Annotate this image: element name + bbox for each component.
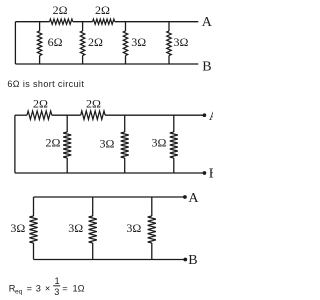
wire: bottom lead of R9 2-ohm: [66, 158, 68, 173]
wire: bottom lead of R12 3-ohm: [33, 243, 35, 260]
wire: circuit-2 bottom rail to node B: [15, 172, 205, 174]
wire: circuit-1 top rail left segment: [15, 21, 49, 23]
wire: top lead of R4 2-ohm: [82, 22, 84, 31]
wire: top lead of R6 3-ohm: [168, 22, 170, 31]
wire: bottom lead of R4 2-ohm: [82, 56, 84, 65]
wire: top lead of R10 3-ohm: [124, 115, 126, 132]
wire: circuit-3 top rail to node A: [34, 196, 185, 198]
svg-text:A: A: [202, 15, 213, 30]
resistor R3 6-ohm vertical (circuit 1): [37, 31, 41, 56]
wire: bottom lead of R11 3-ohm: [173, 158, 175, 173]
resistor R7 2-ohm horizontal (circuit 2): [27, 111, 52, 119]
svg-text:6Ω is short circuit: 6Ω is short circuit: [7, 79, 84, 89]
wire: top lead of R12 3-ohm: [33, 197, 35, 216]
wire: top lead of R3 6-ohm: [39, 22, 41, 31]
wire: circuit-2 left edge: [14, 115, 16, 173]
resistor R5 3-ohm vertical (circuit 1): [123, 31, 127, 56]
svg-text:2Ω: 2Ω: [33, 97, 48, 111]
wire: circuit-1 left edge: [14, 22, 16, 64]
resistor R13 3-ohm vertical (circuit 3): [89, 216, 97, 243]
svg-text:2Ω: 2Ω: [86, 97, 101, 111]
resistor R11 3-ohm vertical (circuit 2): [170, 132, 178, 158]
svg-text:1: 1: [55, 276, 60, 286]
wire: circuit-1 bottom rail to node B: [15, 63, 198, 65]
svg-text:=: =: [62, 283, 67, 293]
wire: circuit-2 top rail left stub: [15, 114, 27, 116]
wire: bottom lead of R6 3-ohm: [168, 56, 170, 65]
svg-text:3Ω: 3Ω: [100, 136, 115, 150]
fraction bar of 1/3: [53, 285, 60, 287]
svg-text:3: 3: [36, 283, 41, 293]
resistor R9 2-ohm vertical (circuit 2): [63, 132, 71, 158]
node A terminal dot (circuit 3): [183, 195, 187, 199]
formula text: Req = 3 x 1/3 = 1 ohm: [9, 276, 85, 297]
svg-text:2Ω: 2Ω: [95, 3, 110, 17]
wire: circuit-2 top rail right segment to node A: [105, 114, 204, 116]
wire: bottom lead of R14 3-ohm: [151, 243, 153, 260]
wire: bottom lead of R10 3-ohm: [124, 158, 126, 173]
svg-text:3Ω: 3Ω: [131, 35, 146, 49]
wire: top lead of R13 3-ohm: [92, 197, 94, 216]
resistor R14 3-ohm vertical (circuit 3): [148, 216, 156, 243]
wire: bottom lead of R5 3-ohm: [125, 56, 127, 65]
svg-text:6Ω: 6Ω: [48, 35, 63, 49]
resistor R4 2-ohm vertical (circuit 1): [80, 31, 84, 56]
resistor R6 3-ohm vertical (circuit 1): [167, 31, 171, 56]
svg-text:3Ω: 3Ω: [152, 136, 167, 150]
svg-text:B: B: [188, 253, 197, 268]
resistor R1 2-ohm horizontal (circuit 1): [50, 19, 73, 24]
svg-text:3Ω: 3Ω: [10, 221, 25, 235]
node B terminal dot (circuit 3): [183, 258, 187, 262]
wire: circuit-2 top rail between R7 and R8: [52, 114, 81, 116]
circuit schematic: three-stage resistor network reduction: [0, 0, 213, 300]
svg-text:B: B: [202, 59, 211, 74]
wire: circuit-1 top rail right segment to node A: [115, 21, 199, 23]
svg-text:×: ×: [45, 283, 50, 293]
wire: bottom lead of R13 3-ohm: [92, 243, 94, 260]
wire: top lead of R11 3-ohm: [173, 115, 175, 132]
resistor R10 3-ohm vertical (circuit 2): [121, 132, 129, 158]
svg-text:2Ω: 2Ω: [46, 135, 61, 149]
svg-text:A: A: [188, 191, 199, 206]
wire: top lead of R9 2-ohm: [66, 115, 68, 132]
svg-text:3: 3: [54, 287, 59, 297]
resistor R2 2-ohm horizontal (circuit 1): [93, 19, 115, 24]
node B terminal dot (circuit 2): [203, 171, 207, 175]
wire: top lead of R5 3-ohm: [125, 22, 127, 31]
svg-text:2Ω: 2Ω: [88, 35, 103, 49]
svg-text:1Ω: 1Ω: [73, 283, 85, 293]
svg-text:B: B: [209, 167, 213, 182]
wire: circuit-3 bottom rail to node B: [34, 259, 186, 261]
wire: circuit-1 top rail between R1 and R2: [73, 21, 93, 23]
svg-text:A: A: [209, 109, 213, 124]
wire: top lead of R14 3-ohm: [151, 197, 153, 216]
node A terminal dot (circuit 2): [203, 113, 207, 117]
resistor R12 3-ohm vertical (circuit 3): [29, 216, 37, 243]
svg-text:=: =: [27, 283, 32, 293]
svg-text:eq: eq: [15, 288, 23, 295]
svg-text:2Ω: 2Ω: [53, 3, 68, 17]
svg-text:3Ω: 3Ω: [68, 221, 83, 235]
svg-text:3Ω: 3Ω: [126, 221, 141, 235]
svg-text:3Ω: 3Ω: [174, 35, 189, 49]
wire: bottom lead of R3 6-ohm: [39, 56, 41, 65]
resistor R8 2-ohm horizontal (circuit 2): [81, 111, 105, 119]
